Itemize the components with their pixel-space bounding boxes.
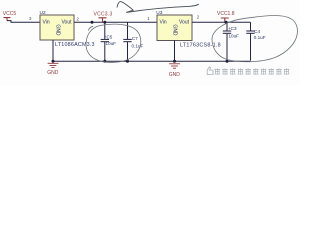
svg-text:10uF: 10uF [106,41,117,46]
power flag VCC5 [3,11,17,20]
svg-text:0.1uF: 0.1uF [254,35,266,40]
wire bottom ground rail [53,60,251,62]
svg-text:C7: C7 [132,36,138,41]
regulator U3 body [157,15,192,41]
svg-text:VCC5: VCC5 [3,11,17,17]
svg-text:C4: C4 [254,29,260,34]
svg-text:+C5: +C5 [104,34,113,39]
capacitor C4 (0.1uF) [246,22,265,60]
power flag VCC1.8 [217,11,235,22]
node junction C7/ground rail [126,60,129,63]
svg-text:LT1763CS8-1.8: LT1763CS8-1.8 [180,43,221,49]
capacitor C3 (polarized 10uF) [223,22,239,61]
wire U3 Vout to C4 [192,21,251,23]
svg-text:10uF: 10uF [229,33,240,38]
wire VCC5 to U2 Vin [7,21,40,23]
watermark logo icon [207,67,213,75]
node junction at GND1 [52,60,55,63]
power flag VCC3.3 [94,11,113,22]
svg-text:+C3: +C3 [228,26,237,31]
capacitor C5 (polarized 10uF) [101,22,117,61]
node junction at GND2 [173,60,176,63]
annotation ellipse pen start curl [88,26,93,30]
annotation ellipse around C3/C4 [212,15,297,61]
capacitor C7 (0.1uF) [123,22,143,61]
wire U2 Vout to U3 Vin [74,21,157,23]
svg-text:GND: GND [169,72,181,78]
svg-text:Vout: Vout [62,19,73,25]
watermark text [215,68,290,74]
node junction on VCC3.3 rail [91,21,94,24]
regulator U2 body [40,15,74,40]
annotation ellipse around C5/C7 [86,24,141,62]
node junction C5/ground rail [103,60,106,63]
annotation squiggle (top) [117,2,199,13]
node junction at VCC1.8 / C3 [225,21,228,24]
svg-text:Vin: Vin [43,19,50,25]
wire U2 GND to ground [52,40,54,61]
svg-text:Vin: Vin [160,19,167,25]
svg-text:0.1uF: 0.1uF [132,44,144,49]
svg-text:GND: GND [54,24,60,36]
svg-text:VCC3.3: VCC3.3 [94,11,113,17]
node junction at C5 [103,21,106,24]
svg-text:Vout: Vout [179,19,190,25]
ground symbol GND1 [47,63,59,75]
svg-text:GND: GND [47,70,59,76]
ground symbol GND2 [169,64,181,78]
svg-text:GND: GND [171,24,177,36]
svg-text:LT1086ACM3.3: LT1086ACM3.3 [55,42,95,48]
node junction C3/ground rail [226,60,229,63]
svg-text:VCC1.8: VCC1.8 [217,11,235,17]
wire U3 GND to ground [174,41,176,62]
